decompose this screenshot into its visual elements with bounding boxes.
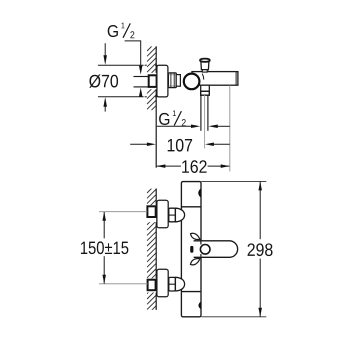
wall hole (side view) — [147, 73, 157, 90]
dome connector lower — [175, 277, 184, 291]
diameter-70 arrow (lower) — [103, 97, 107, 112]
label G 1/2 (top) — [108, 23, 135, 39]
shower hose lines — [201, 95, 208, 131]
temp handle mark (upper crescent) — [198, 189, 200, 198]
mixer body column — [181, 182, 201, 317]
dimension 298 — [248, 182, 273, 317]
nipple behind wall (upper) — [147, 206, 155, 217]
spout end cap line — [235, 72, 237, 85]
diverter knob — [200, 59, 210, 72]
lever (stadium shape) — [194, 241, 238, 257]
dimension G1/2 hose (lower) — [157, 125, 230, 129]
wall hatching (side view) — [147, 42, 156, 126]
dimension 162 — [157, 160, 230, 173]
nut lower (second view) — [169, 277, 176, 291]
leader from G 1/2 (top) — [125, 41, 141, 66]
wall face line (second view) — [155, 189, 157, 310]
lever knob circle — [200, 245, 210, 255]
wall hatching (front/top view) — [147, 184, 156, 326]
escutcheon upper (second view) — [157, 200, 168, 228]
spout end extension line — [229, 85, 231, 171]
union nut behind wall — [149, 75, 157, 87]
dimension 107 — [130, 139, 230, 152]
spout body (side view) — [192, 72, 238, 86]
hose centerline — [204, 95, 206, 149]
valve body circle — [184, 74, 200, 90]
150 extension lines — [99, 212, 148, 284]
dimension 150 plus/minus 15 — [81, 212, 128, 284]
nut upper (second view) — [169, 208, 176, 222]
label G 1/2 (lower) — [159, 110, 186, 126]
dome connector upper — [175, 208, 184, 222]
shower outlet tube — [201, 85, 210, 91]
diameter-70 arrow (upper) — [103, 43, 107, 65]
volume handle mark (lower crescent) — [198, 302, 200, 309]
lever wing upper — [191, 233, 200, 239]
escutcheon (side view) — [157, 65, 168, 97]
economy button mark — [190, 246, 193, 253]
wall face line (side view) — [155, 46, 157, 167]
nipple behind wall (lower) — [148, 280, 156, 291]
supply pipe — [134, 77, 149, 87]
body divider upper — [181, 206, 201, 208]
dim extension lines for diameter 70 — [98, 65, 157, 97]
body edge segments through lever — [200, 241, 202, 256]
connection nut (side view) — [168, 73, 176, 88]
spout/body intersection arc — [202, 74, 204, 80]
lever wing lower — [191, 259, 200, 265]
hose nut band — [201, 91, 210, 95]
G1/2 arrow down — [139, 66, 143, 75]
body divider lower — [181, 291, 201, 293]
298 extension lines — [201, 181, 266, 316]
escutcheon lower (second view) — [157, 269, 168, 297]
neck between nut and valve body — [176, 75, 180, 87]
G1/2 arrow up — [139, 88, 143, 97]
label diameter 70 — [89, 74, 118, 87]
wall holes (second view) — [147, 205, 157, 222]
